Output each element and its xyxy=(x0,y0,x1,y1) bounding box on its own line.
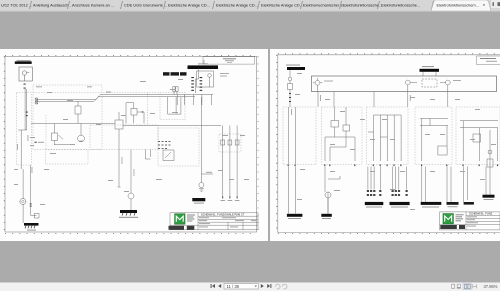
layout icons xyxy=(452,284,461,288)
dashed module mid xyxy=(160,92,185,120)
green logo xyxy=(175,214,185,224)
bottom pin rows under boxes xyxy=(288,165,498,167)
fit width icon xyxy=(473,284,477,288)
fuse holder dashed box xyxy=(16,93,31,166)
dense disclaimer text blocks xyxy=(169,226,185,230)
page number field xyxy=(224,284,259,290)
long control wire through K3 xyxy=(31,123,115,125)
ground bar center xyxy=(119,210,138,218)
relay box top-right xyxy=(197,71,214,87)
connector stub bottom-left of box A xyxy=(35,142,37,143)
terminal strip bar bottom-center-right xyxy=(192,198,205,204)
box2 contents xyxy=(325,107,355,161)
wires to grounds xyxy=(288,130,490,214)
ground bar g2 xyxy=(321,214,332,219)
motor M1 xyxy=(78,124,85,142)
svg-text:Elektrische Anlage CD...: Elektrische Anlage CD... xyxy=(168,3,210,8)
supply bar A xyxy=(287,67,305,70)
motor bottom cluster xyxy=(325,176,340,214)
pin rows inside dashed module H xyxy=(158,141,171,149)
svg-text:37.86%: 37.86% xyxy=(484,284,498,289)
battery connector pins xyxy=(24,84,26,89)
relay K1 circle in box xyxy=(208,74,212,78)
breaker in bus box xyxy=(313,78,323,92)
terminal bar t2 xyxy=(390,202,410,205)
connector marks on feed wire xyxy=(30,203,32,206)
svg-text:11 / 38: 11 / 38 xyxy=(227,284,240,289)
vertical feeders from bus xyxy=(290,92,448,108)
relay K3 center xyxy=(115,120,123,129)
lamp symbol xyxy=(20,199,26,205)
dashed module boxes xyxy=(283,107,500,165)
wires below dashed line to lamp G xyxy=(118,150,151,211)
relay K2 xyxy=(75,106,81,114)
tab bar xyxy=(0,0,500,12)
title block xyxy=(170,213,258,230)
drawing frame xyxy=(278,55,500,233)
connector pin cluster 1 xyxy=(367,190,382,196)
box5 contents xyxy=(460,121,498,161)
main bus box xyxy=(312,76,497,92)
first page button xyxy=(211,284,222,288)
wire labels center xyxy=(133,169,136,176)
history buttons (disabled) xyxy=(275,284,286,289)
box3 contents xyxy=(368,115,401,161)
title ref box top-right xyxy=(477,56,500,65)
terminal bar t1 xyxy=(365,202,384,205)
battery box G1 xyxy=(19,67,32,81)
label text above battery bar xyxy=(17,60,31,61)
svg-text:SCHEMA EL. FUNZ: SCHEMA EL. FUNZ xyxy=(469,212,493,216)
ground bar g5 xyxy=(483,195,495,200)
frame tick marks xyxy=(4,55,258,233)
inner dashed subdivision of box A xyxy=(33,92,160,94)
wire number labels (right page) xyxy=(291,73,496,210)
feed wire pair through box A to main bus xyxy=(37,95,213,106)
ground bar g1 xyxy=(287,214,303,219)
next page buttons xyxy=(261,284,272,288)
logo side text xyxy=(187,215,195,216)
active tab xyxy=(431,0,491,11)
svg-text:Elektrofunktionsschem...: Elektrofunktionsschem... xyxy=(437,2,479,7)
terminal bars right of g4 xyxy=(447,202,474,205)
relay circles in bus box xyxy=(405,79,450,92)
ground bar g4 xyxy=(421,202,442,208)
supply bar B xyxy=(420,69,440,72)
left page xyxy=(0,49,268,241)
segmented label bar xyxy=(163,72,187,75)
svg-text:Elektrische Anlage CD...: Elektrische Anlage CD... xyxy=(216,3,258,8)
left feed chain xyxy=(288,70,293,106)
connector X1 pin strips xyxy=(191,77,202,91)
fuse box S1 xyxy=(52,124,73,145)
svg-text:Elektrofunktionssche...: Elektrofunktionssche... xyxy=(381,3,420,8)
svg-text:Elektromechanischer 3...: Elektromechanischer 3... xyxy=(303,3,346,8)
battery bus bar xyxy=(15,61,32,64)
contact ladder cluster left of module xyxy=(126,103,144,124)
svg-text:SCHEMA EL. FUNZIONALE PDM CT: SCHEMA EL. FUNZIONALE PDM CT xyxy=(201,213,245,217)
box1 wires xyxy=(288,107,295,164)
svg-text:U/12 TCE 2012 ...: U/12 TCE 2012 ... xyxy=(1,3,32,8)
right page xyxy=(270,49,500,241)
box4 contents xyxy=(420,119,448,162)
svg-text:Elektrische Anlage CD...: Elektrische Anlage CD... xyxy=(261,3,303,8)
wire number labels (left page) xyxy=(14,79,249,205)
small fuse boxes above main bus xyxy=(173,87,178,95)
title block xyxy=(440,212,500,230)
lamp H2 column center-right xyxy=(146,97,214,192)
title ref box top-right xyxy=(203,57,255,64)
dashed region borders xyxy=(33,85,241,166)
wire S-jog at connector xyxy=(196,60,205,93)
svg-text:Anschluss Kamera an ...: Anschluss Kamera an ... xyxy=(72,3,114,8)
input terminal symbols xyxy=(35,98,38,104)
pin marks right column xyxy=(222,197,238,198)
drawing frame xyxy=(5,56,257,232)
svg-text:×: × xyxy=(483,3,486,8)
svg-text:Anleitung Austausch ...: Anleitung Austausch ... xyxy=(33,3,73,8)
ground bar left xyxy=(24,223,39,231)
bottom toolbar xyxy=(0,282,500,291)
switch box inside module H xyxy=(163,150,174,161)
selected two-page icon xyxy=(463,283,471,289)
right column wires (lamps column) xyxy=(221,126,239,200)
small load right xyxy=(31,214,39,219)
svg-text:CDE UGS Grenzwerte ...: CDE UGS Grenzwerte ... xyxy=(124,3,167,8)
green logo xyxy=(443,214,453,224)
svg-text:Elektrofunktionssche...: Elektrofunktionssche... xyxy=(343,3,382,8)
label above bar A xyxy=(286,65,300,66)
feed double wire xyxy=(18,89,31,223)
fuse labels on wire xyxy=(26,112,28,117)
right tall component xyxy=(487,150,493,167)
label above bar B xyxy=(422,66,434,67)
connector pin cluster 2 xyxy=(392,190,408,196)
long terminal bar xyxy=(188,65,219,69)
